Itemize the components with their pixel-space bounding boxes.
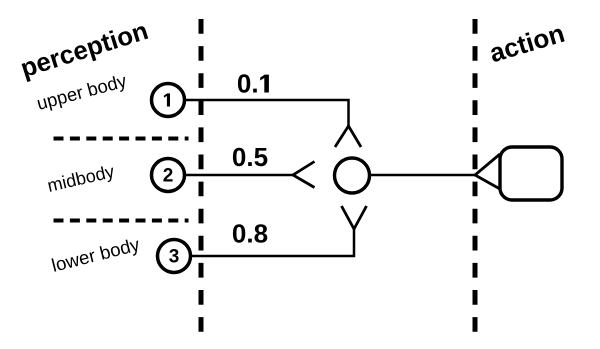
svg-text:perception: perception [17, 17, 151, 83]
svg-text:0.: 0. [237, 69, 259, 99]
wire input 1 [185, 100, 349, 126]
svg-text:3: 3 [169, 247, 180, 268]
fork arrowhead 1 [335, 126, 361, 147]
right boundary dashed line [473, 19, 478, 332]
output wire [371, 174, 475, 177]
fork arrowhead 2 [293, 162, 315, 188]
input node 1 [152, 84, 185, 117]
action box [500, 147, 562, 200]
left boundary dashed line [199, 19, 204, 332]
fork arrowhead 3 [342, 206, 367, 229]
wire input 3 [191, 229, 354, 256]
svg-text:2: 2 [163, 166, 174, 187]
input node 3 [158, 240, 191, 273]
separator dashed line 1 [54, 137, 189, 141]
output arrowhead [475, 154, 500, 189]
svg-text:0.5: 0.5 [232, 142, 268, 172]
input node 2 [152, 159, 185, 192]
neuron circle [335, 158, 370, 193]
svg-text:lower body: lower body [49, 233, 142, 276]
svg-text:0.8: 0.8 [232, 219, 268, 249]
separator dashed line 2 [54, 219, 189, 223]
svg-text:action: action [486, 18, 568, 69]
svg-text:midbody: midbody [45, 161, 116, 196]
wire input 2 [185, 174, 293, 177]
svg-text:upper body: upper body [34, 70, 129, 114]
